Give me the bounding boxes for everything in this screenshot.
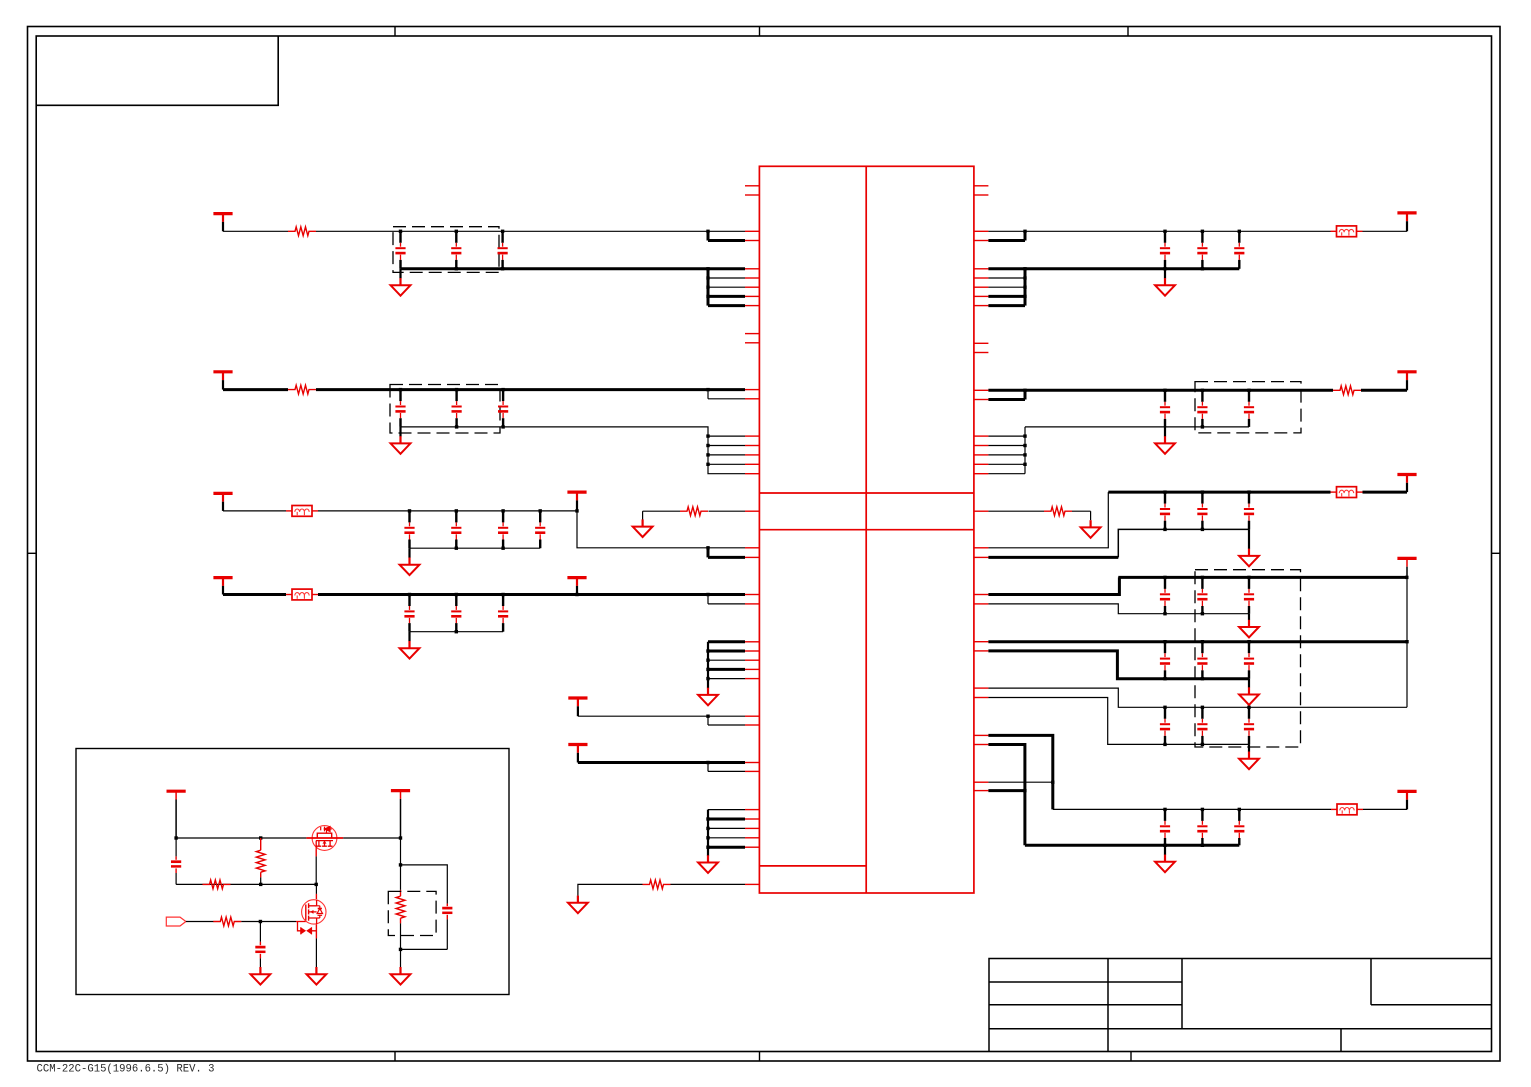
capacitor C row2L-1 xyxy=(395,390,405,427)
wire band left pin to R xyxy=(709,510,746,512)
power symbol T2 detail xyxy=(391,791,410,838)
ground left group4 xyxy=(698,855,718,873)
power symbol VCC row1 left xyxy=(213,214,232,232)
resistor row1 left xyxy=(288,227,316,236)
wire node A xyxy=(176,837,306,839)
ground row3 left xyxy=(400,558,420,576)
wire row1 left pin group bus xyxy=(707,269,710,306)
wire row3 right pin up xyxy=(988,492,1108,548)
capacitor C netA-3 xyxy=(1244,577,1254,613)
power symbol VCC row4 left xyxy=(213,578,232,595)
wire R bottom to ground xyxy=(578,884,643,895)
inductor FB row3 left xyxy=(286,506,318,517)
wire aux1 net xyxy=(578,715,745,717)
wire band right pin to R xyxy=(988,510,1044,512)
inductor FB row4 left xyxy=(286,589,318,600)
wire T2 to ground xyxy=(400,949,402,967)
inductor FB row1 right xyxy=(1331,226,1363,237)
wire row2 left pin group xyxy=(708,435,745,437)
power symbol VCC row2 right xyxy=(1397,372,1416,391)
wire net D pin2 xyxy=(988,789,1025,792)
transistor Q1 (P-MOSFET) xyxy=(306,826,343,851)
transistor Q2 (N-MOSFET) xyxy=(302,900,326,925)
wire row2 right pin group bus xyxy=(1024,427,1026,474)
ground row1 left xyxy=(391,278,411,296)
power symbol aux1 left xyxy=(568,698,587,716)
capacitor C netB-3 xyxy=(1244,642,1254,679)
dashed box row1 left caps xyxy=(393,227,499,273)
wire RC top xyxy=(401,865,448,904)
dashed box row2 left caps xyxy=(390,385,500,434)
wire row4 left net xyxy=(318,593,745,596)
wire row1 right to power xyxy=(1363,230,1408,232)
capacitor C row4L-1 xyxy=(404,595,414,632)
wire row1 left ground bus xyxy=(401,267,746,270)
capacitor C3 detail xyxy=(442,904,452,950)
power symbol VCC row2 left xyxy=(213,372,232,390)
wire Q2 gate red lead xyxy=(296,921,306,923)
ground net B xyxy=(1239,687,1259,705)
ground net F xyxy=(1239,752,1259,770)
wire to ground row2 left xyxy=(399,427,401,437)
resistor row2 left xyxy=(288,385,316,394)
wire row2 right to power xyxy=(1361,389,1407,392)
capacitor C row2L-2 xyxy=(452,390,462,427)
capacitor C netA-1 xyxy=(1160,577,1170,613)
wire row2 left step to pin2 xyxy=(707,390,709,399)
wire input wire xyxy=(186,921,214,923)
ground row2 right xyxy=(1155,436,1175,454)
wire node B lower xyxy=(176,883,316,885)
resistor bottom xyxy=(643,880,671,889)
capacitor C row3R-2 xyxy=(1197,492,1207,529)
border tick bottom-left xyxy=(394,1052,396,1062)
svg-text:CCM-22C-G15(1996.6.5) REV. 3: CCM-22C-G15(1996.6.5) REV. 3 xyxy=(37,1064,215,1076)
border tick bottom-right xyxy=(1130,1052,1132,1062)
wire row2 left net to pin xyxy=(316,388,745,391)
ground left group3 xyxy=(698,688,718,706)
capacitor C netB-2 xyxy=(1197,642,1207,679)
wire row2 left to R xyxy=(223,388,288,391)
resistor R3 detail xyxy=(396,865,405,950)
capacitor C row1L-1 xyxy=(395,231,405,268)
power symbol aux2 left xyxy=(568,745,587,763)
wire RC bottom xyxy=(401,948,448,950)
wire row1 left to R xyxy=(223,230,288,232)
capacitor C row3R-1 xyxy=(1160,492,1170,529)
capacitor C row4L-3 xyxy=(498,595,508,632)
ground net A xyxy=(1239,620,1259,638)
wire net C power xyxy=(1053,808,1331,810)
border tick top-right xyxy=(1127,27,1129,37)
wire net A gnd bus xyxy=(988,604,1249,614)
power symbol VCC row3 left xyxy=(213,493,232,511)
capacitor C row4L-2 xyxy=(451,595,461,632)
wire net A power xyxy=(1118,576,1407,579)
ground row4 left xyxy=(400,641,420,659)
wire row4 left to L xyxy=(223,593,286,596)
wire cap3 to ground row3 right xyxy=(1248,529,1250,549)
wire band right R to corner xyxy=(1072,510,1091,512)
capacitor C netF-3 xyxy=(1244,707,1254,744)
wire to ground row2 right xyxy=(1164,427,1166,437)
ground band left xyxy=(633,519,653,537)
wire row2 left ground bus xyxy=(401,427,746,474)
capacitor C row3R-3 xyxy=(1244,492,1254,529)
wire row1 right pin group bus xyxy=(1024,269,1027,306)
wire left group4 gnd bus xyxy=(707,810,709,857)
capacitor C row2L-3 xyxy=(498,390,508,427)
capacitor C row2R-3 xyxy=(1244,390,1254,427)
ground row3 right xyxy=(1239,549,1259,567)
inductor FB net C xyxy=(1331,804,1363,815)
border tick right xyxy=(1492,552,1501,554)
capacitor C row1L-2 xyxy=(451,231,461,268)
wire row3 right gnd bus xyxy=(1118,529,1249,557)
capacitor C2 detail xyxy=(255,922,265,968)
detail circuit box xyxy=(76,749,509,995)
dashed box R3 xyxy=(388,891,436,935)
wire net B power xyxy=(988,640,1407,643)
resistor band left xyxy=(680,507,708,516)
wire row1 left net to pin xyxy=(316,230,745,232)
wire aux1 step pin2 xyxy=(707,716,709,725)
wire to ground row3 left xyxy=(408,548,410,558)
wire T2 vertical xyxy=(400,838,402,865)
wire right mid power vertical xyxy=(1406,577,1408,707)
resistor band right xyxy=(1044,507,1072,516)
wire gate wire xyxy=(241,921,296,923)
wire row3 left cap bus xyxy=(410,547,541,549)
wire row3 left to L xyxy=(223,510,286,512)
wire Q1 drain to T2 node xyxy=(343,837,400,839)
U1 pin stubs left side xyxy=(745,186,759,885)
wire net D gnd bus xyxy=(1025,844,1239,847)
wire row3 right power net xyxy=(1108,491,1330,494)
capacitor C netB-1 xyxy=(1160,642,1170,679)
wire aux2 step pin2 xyxy=(707,763,709,772)
border tick bottom-center xyxy=(759,1052,761,1062)
dashed box row2 right caps xyxy=(1195,382,1301,433)
wire row1 right ground bus xyxy=(988,267,1239,270)
capacitor C row1L-3 xyxy=(498,231,508,268)
ground C2 detail xyxy=(251,967,271,985)
capacitor C row1R-1 xyxy=(1160,231,1170,268)
wire row3 left step pin2 xyxy=(707,548,710,558)
power symbol VCC row3 right xyxy=(1397,475,1416,493)
U1 pin stubs right side xyxy=(974,186,989,791)
power symbol VCC row1 right xyxy=(1397,213,1416,231)
wire row3 right to power xyxy=(1363,491,1408,494)
capacitor C row1R-3 xyxy=(1234,231,1244,268)
resistor row2 right xyxy=(1333,386,1361,395)
capacitor C row2R-1 xyxy=(1160,390,1170,427)
wire pin to R bottom xyxy=(671,883,746,885)
wire row1 right net xyxy=(988,230,1330,232)
capacitor C netC-3 xyxy=(1234,809,1244,845)
power symbol VCC row3 mid xyxy=(567,492,586,511)
capacitor C row3L-1 xyxy=(404,511,414,548)
power symbol T1 detail xyxy=(167,791,186,838)
capacitor C netC-2 xyxy=(1197,809,1207,845)
capacitor C1 detail xyxy=(171,838,181,884)
wire aux2 net xyxy=(578,761,745,764)
wire row4 right pin to net A xyxy=(988,577,1119,594)
wire cap3 to ground net A xyxy=(1248,614,1250,620)
resistor R4 detail xyxy=(213,917,241,926)
wire Q1 gate xyxy=(315,850,317,857)
wire row1 right step pin2 xyxy=(988,239,1025,242)
wire net C pin down xyxy=(988,735,1052,809)
dashed box right caps xyxy=(1195,570,1301,747)
wire to ground row4 left xyxy=(408,632,410,642)
wire row4 left step pin2 xyxy=(707,595,709,604)
capacitor C row3L-2 xyxy=(451,511,461,548)
wire to ground row1 right xyxy=(1164,269,1166,279)
wire to ground row1 left xyxy=(399,269,401,279)
wire band left R to corner xyxy=(643,510,680,512)
power symbol VCC row4 mid xyxy=(567,578,586,595)
capacitor C netC-1 xyxy=(1160,809,1170,845)
ground row1 right xyxy=(1155,278,1175,296)
wire row3 left feed to pin xyxy=(577,511,745,548)
border tick left xyxy=(28,552,37,554)
wire net D pin down xyxy=(988,745,1025,846)
title block table bottom-right xyxy=(989,959,1492,1052)
op-amp U1 IC body xyxy=(759,166,974,893)
inductor FB row3 right xyxy=(1331,487,1363,498)
ground T2 detail xyxy=(391,967,411,985)
capacitor C netF-2 xyxy=(1197,707,1207,744)
wire row3 right gnd pin wire xyxy=(988,556,1118,559)
power symbol VCC right mid xyxy=(1397,558,1416,577)
wire row2 right ground bus xyxy=(1025,426,1249,428)
ground band right xyxy=(1081,520,1101,538)
ground bottom mid xyxy=(568,896,588,914)
wire net C to power xyxy=(1363,808,1407,810)
wire left group3 gnd bus xyxy=(707,642,709,689)
resistor R1 detail xyxy=(256,838,265,884)
wire net C pin2 xyxy=(988,781,1052,783)
wire row1 left step to pin2 xyxy=(707,231,710,240)
ground Q2 source xyxy=(307,967,327,985)
capacitor C row3L-4 xyxy=(535,511,545,548)
connector input terminal xyxy=(166,917,186,926)
wire row2 right step pin2 xyxy=(988,398,1025,401)
capacitor C netF-1 xyxy=(1160,707,1170,744)
capacitor C row2R-2 xyxy=(1197,390,1207,427)
border tick top-left xyxy=(394,27,396,37)
wire Q2 drain xyxy=(315,884,317,894)
wire to ground net D xyxy=(1164,845,1166,855)
wire net B gnd bus xyxy=(988,651,1249,679)
resistor R2 detail xyxy=(203,880,231,889)
zener diode Q2 gate protection xyxy=(298,922,317,935)
wire cap3 to ground net B xyxy=(1248,679,1250,688)
wire cap3 to ground net F xyxy=(1248,744,1250,751)
ground net D xyxy=(1155,855,1175,873)
border tick top-center xyxy=(759,27,761,37)
wire net F power xyxy=(988,688,1407,707)
wire Q2 source xyxy=(315,925,317,939)
power symbol VCC net C xyxy=(1397,791,1416,809)
wire row4 left cap bus xyxy=(410,631,504,633)
ground row2 left xyxy=(391,436,411,454)
capacitor C row1R-2 xyxy=(1197,231,1207,268)
title block top-left xyxy=(36,36,278,105)
capacitor C row3L-3 xyxy=(498,511,508,548)
wire row2 right net xyxy=(988,389,1333,392)
wire net F gnd bus xyxy=(988,698,1249,745)
capacitor C netA-2 xyxy=(1197,577,1207,613)
wire row3 left net xyxy=(318,510,577,512)
